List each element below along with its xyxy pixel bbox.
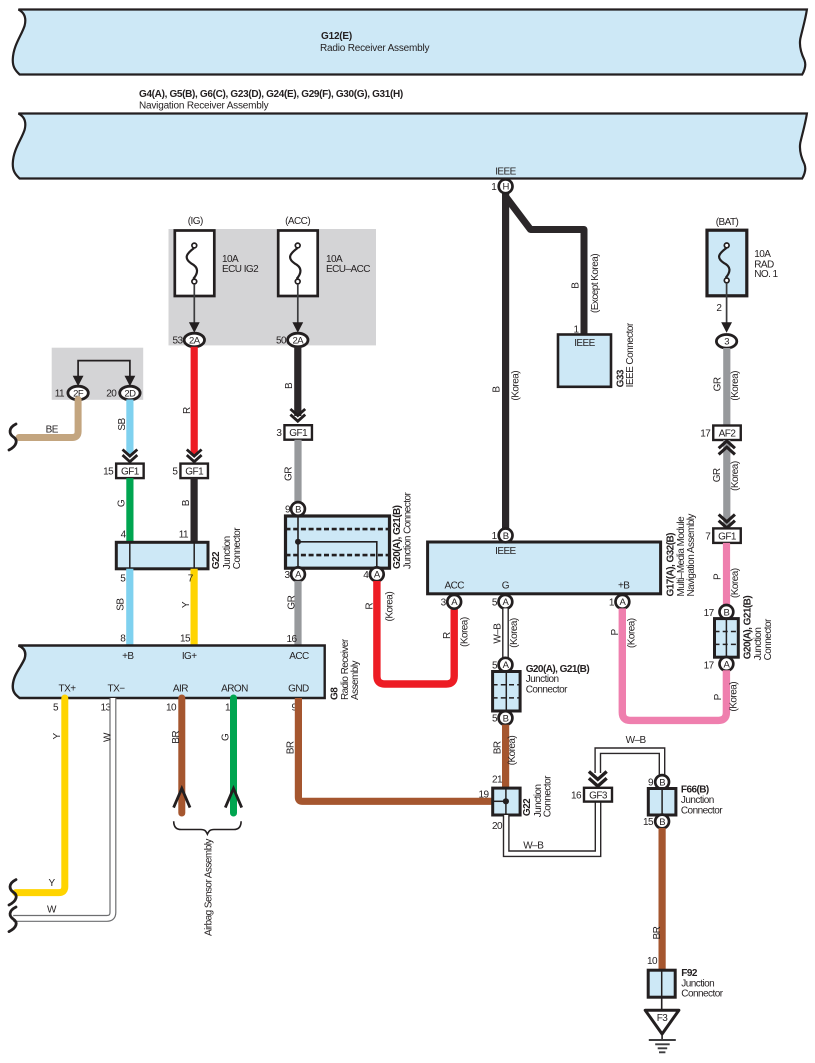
svg-text:TX−: TX− <box>108 684 126 695</box>
wire SB from 2D to GF1 <box>117 400 130 456</box>
pin 9 (B) of junction connector <box>285 502 305 516</box>
fuse 10A RAD NO. 1 (BAT) <box>707 217 779 333</box>
pin 5 (B) of junction connector <box>492 711 512 725</box>
svg-text:(Korea): (Korea) <box>730 461 741 491</box>
svg-text:BR: BR <box>286 741 297 754</box>
svg-text:W: W <box>47 904 57 915</box>
wire BR (Korea) to G22 pin 21 <box>492 725 518 789</box>
pin 1 (H) of navigation receiver <box>491 179 512 193</box>
svg-text:9: 9 <box>648 778 654 789</box>
wire W-B from F66 pin 9 to GF3 <box>598 735 662 776</box>
ground point F3 <box>645 997 679 1034</box>
svg-text:H: H <box>502 182 509 193</box>
wire P (Korea) loop from multi-media +B to 17(A) <box>610 608 740 720</box>
wire R (Korea) loop to multi-media ACC <box>364 581 470 684</box>
svg-text:5: 5 <box>53 703 59 714</box>
wire P (Korea) from GF1 to 17(B) <box>713 543 741 606</box>
svg-text:Radio Receiver: Radio Receiver <box>340 638 351 700</box>
svg-text:5: 5 <box>172 466 178 477</box>
pin 20 (2D) <box>106 386 140 400</box>
svg-text:(ACC): (ACC) <box>285 216 310 227</box>
svg-text:B: B <box>571 282 582 289</box>
svg-text:W: W <box>102 732 113 742</box>
svg-text:Y: Y <box>181 601 192 608</box>
svg-text:F3: F3 <box>657 1013 669 1024</box>
svg-text:BR: BR <box>171 731 182 744</box>
svg-text:Y: Y <box>52 733 63 740</box>
svg-text:(Korea): (Korea) <box>730 568 741 598</box>
label Navigation Receiver Assembly heading <box>139 89 403 112</box>
junction AF2 pin 17 <box>700 426 741 441</box>
svg-text:5: 5 <box>120 574 126 585</box>
svg-text:G4(A), G5(B), G6(C), G23(D), G: G4(A), G5(B), G6(C), G23(D), G24(E), G29… <box>139 89 403 100</box>
junction GF1 pin 5 <box>172 464 208 479</box>
svg-text:Navigation Receiver Assembly: Navigation Receiver Assembly <box>139 101 269 112</box>
connector arrows into GF1 (15) <box>123 450 138 462</box>
svg-text:17: 17 <box>704 661 715 672</box>
pin 9 (B) of F66 <box>648 775 669 789</box>
svg-text:16: 16 <box>286 634 297 645</box>
svg-text:P: P <box>713 693 724 700</box>
svg-text:BR: BR <box>492 741 503 754</box>
junction GF1 pin 7 <box>705 528 741 543</box>
connector arrows into GF1 (7) <box>719 515 735 528</box>
svg-text:Junction: Junction <box>681 795 714 806</box>
svg-text:B: B <box>659 777 665 788</box>
svg-text:G: G <box>117 499 128 507</box>
svg-text:W–B: W–B <box>626 735 647 746</box>
junction connector F92 <box>648 968 724 1000</box>
pin 2 (3) of battery fuse <box>716 335 736 349</box>
svg-text:4: 4 <box>121 530 127 541</box>
svg-text:(BAT): (BAT) <box>716 217 739 228</box>
svg-text:(Korea): (Korea) <box>507 736 518 766</box>
svg-text:16: 16 <box>571 790 582 801</box>
fuse 10A ECU-ACC (ACC) <box>278 216 370 333</box>
svg-text:GR: GR <box>287 595 298 609</box>
pin 5 (A) of multi-media module <box>492 595 512 609</box>
wire BR from GND to G22 pin 19 <box>286 698 493 801</box>
junction connector G20(A) G21(B) right <box>715 596 775 661</box>
wire Y from TX+ to harness break <box>16 698 65 893</box>
wire W from TX- to harness break <box>13 698 113 918</box>
svg-text:W–B: W–B <box>523 841 544 852</box>
svg-text:ARON: ARON <box>221 684 248 695</box>
svg-text:F66(B): F66(B) <box>681 785 709 796</box>
svg-text:3: 3 <box>724 337 729 348</box>
pin 4 (A) <box>363 567 383 581</box>
svg-text:(Korea): (Korea) <box>511 371 522 401</box>
break symbol on Y wire <box>9 880 16 905</box>
svg-text:BR: BR <box>652 926 663 939</box>
pin 1 (A) of multi-media module <box>609 595 629 609</box>
svg-text:IEEE: IEEE <box>495 167 516 178</box>
wire BR from AIR to airbag sensor <box>166 698 182 813</box>
svg-text:(Except Korea): (Except Korea) <box>590 254 601 313</box>
wire BR from F66 to F92 <box>647 828 663 970</box>
arrow to airbag sensor on ARON wire <box>225 788 241 807</box>
wire B from fuse ACC to GF1 <box>284 347 298 416</box>
wire W-B (Korea) from G pin <box>493 608 521 658</box>
pin 3 (A) of multi-media module <box>441 595 461 609</box>
svg-text:Connector: Connector <box>763 618 774 660</box>
svg-text:ECU–ACC: ECU–ACC <box>326 264 370 275</box>
svg-text:TX+: TX+ <box>59 684 77 695</box>
svg-text:B: B <box>295 504 301 515</box>
wire GR from GF1 to pin 9(B) <box>284 440 299 503</box>
svg-text:1: 1 <box>491 182 497 193</box>
wire Y from G22 pin 7 to radio pin 15 <box>180 569 194 646</box>
svg-text:Y: Y <box>49 878 56 889</box>
connector arrows out of AF2 <box>719 441 735 454</box>
pin 17 (B) of junction connector <box>704 605 734 619</box>
svg-text:GR: GR <box>712 377 723 391</box>
junction connector G22 lower <box>478 775 553 833</box>
svg-text:G22: G22 <box>522 798 533 816</box>
jumper wire between 2F and 2D <box>78 361 130 379</box>
svg-text:(Korea): (Korea) <box>509 618 520 648</box>
svg-text:50: 50 <box>276 335 287 346</box>
svg-text:2A: 2A <box>189 335 201 346</box>
pin 15 (B) of F66 <box>643 815 669 829</box>
svg-text:ACC: ACC <box>289 651 309 662</box>
svg-text:GF3: GF3 <box>589 790 608 801</box>
svg-text:(Korea): (Korea) <box>729 682 740 712</box>
fuse block background <box>169 229 377 345</box>
wire GR (Korea) from AF2 to GF1 <box>712 440 741 528</box>
wire SB from G22 pin 5 to radio pin 8 <box>116 569 130 646</box>
svg-text:B: B <box>492 386 503 393</box>
fuse 10A ECU IG2 (IG) <box>175 216 259 333</box>
svg-text:20: 20 <box>492 821 503 832</box>
svg-text:5: 5 <box>492 660 498 671</box>
svg-text:G20(A), G21(B): G20(A), G21(B) <box>526 664 590 675</box>
svg-text:5: 5 <box>492 597 498 608</box>
component G17(A) G32(B) Multi-Media Module Navigation Assembly <box>428 514 698 597</box>
svg-text:11: 11 <box>179 530 189 541</box>
svg-text:Navigation Assembly: Navigation Assembly <box>686 514 697 597</box>
junction connector G20(A) G21(B) <box>286 492 414 569</box>
svg-text:8: 8 <box>120 634 126 645</box>
component band Navigation Receiver Assembly <box>13 114 807 179</box>
arrow into pin 2F <box>73 376 84 387</box>
junction GF3 pin 16 <box>571 788 612 802</box>
svg-text:G12(E): G12(E) <box>321 31 352 42</box>
connector arrows into GF1 (5) <box>187 450 202 462</box>
svg-text:B: B <box>284 382 295 389</box>
svg-text:15: 15 <box>643 817 654 828</box>
svg-text:3: 3 <box>441 597 447 608</box>
svg-text:B: B <box>181 499 192 506</box>
pin 1 (B) of multi-media module <box>492 529 513 543</box>
svg-text:G17(A), G32(B): G17(A), G32(B) <box>665 533 676 597</box>
svg-text:IEEE: IEEE <box>495 546 516 557</box>
svg-text:3: 3 <box>276 428 282 439</box>
svg-text:20: 20 <box>106 389 117 400</box>
svg-text:R: R <box>364 603 375 610</box>
break symbol on W wire <box>9 907 16 932</box>
svg-text:(Korea): (Korea) <box>730 371 741 401</box>
svg-text:3: 3 <box>284 570 290 581</box>
svg-text:R: R <box>182 407 193 414</box>
svg-text:GF1: GF1 <box>718 531 737 542</box>
svg-text:IG+: IG+ <box>182 651 197 662</box>
pin 17 (A) of junction connector <box>704 657 734 672</box>
svg-text:G22: G22 <box>211 551 222 569</box>
arrow into pin 2D <box>125 376 136 387</box>
svg-text:(Korea): (Korea) <box>384 592 395 622</box>
svg-text:Multi–Media Module: Multi–Media Module <box>676 516 687 597</box>
junction connector F66(B) <box>648 785 723 817</box>
svg-text:2D: 2D <box>124 388 136 399</box>
svg-text:15: 15 <box>180 634 191 645</box>
svg-text:19: 19 <box>478 790 489 801</box>
svg-text:BE: BE <box>46 425 59 436</box>
svg-text:GF1: GF1 <box>289 428 308 439</box>
wire B from GF1 to G22 pin 11 <box>179 478 194 542</box>
svg-text:G8: G8 <box>329 687 340 700</box>
svg-text:G20(A), G21(B): G20(A), G21(B) <box>742 596 753 660</box>
wire GR from pin 3(A) to radio pin 16 <box>286 581 298 646</box>
svg-text:NO. 1: NO. 1 <box>754 269 778 280</box>
svg-text:Assembly: Assembly <box>350 661 361 700</box>
svg-text:SB: SB <box>116 598 127 611</box>
break symbol on BE wire <box>9 424 16 450</box>
svg-text:(Korea): (Korea) <box>627 618 638 648</box>
junction connector G20(A) G21(B) middle <box>493 664 590 711</box>
svg-text:2: 2 <box>716 303 722 314</box>
pin 5 (A) of junction connector <box>492 658 512 672</box>
svg-text:2A: 2A <box>293 335 305 346</box>
wire BE from 2F to harness break <box>19 400 78 438</box>
svg-text:ECU IG2: ECU IG2 <box>222 264 259 275</box>
svg-text:5: 5 <box>492 714 498 725</box>
connector arrows into GF1 (3) <box>290 409 305 421</box>
svg-text:GR: GR <box>284 467 295 481</box>
svg-text:10: 10 <box>166 703 177 714</box>
component G8 Radio Receiver Assembly <box>13 638 361 700</box>
svg-text:+B: +B <box>618 580 630 591</box>
svg-text:11: 11 <box>55 389 65 400</box>
svg-text:Radio Receiver Assembly: Radio Receiver Assembly <box>320 43 430 54</box>
svg-text:GND: GND <box>288 684 309 695</box>
connector block 2F 2D background <box>52 348 144 400</box>
svg-text:W–B: W–B <box>493 623 504 644</box>
svg-text:P: P <box>610 629 621 636</box>
svg-text:AF2: AF2 <box>719 428 737 439</box>
svg-text:B: B <box>503 713 509 724</box>
svg-text:IEEE Connector: IEEE Connector <box>625 322 636 387</box>
pin 11 (2F) <box>55 386 89 400</box>
wire B (Korea) from pin H to multi-media module <box>492 192 522 535</box>
svg-text:(IG): (IG) <box>188 216 203 227</box>
svg-text:17: 17 <box>700 428 711 439</box>
svg-text:(Korea): (Korea) <box>459 617 470 647</box>
junction connector G22 <box>116 527 243 569</box>
ground symbol <box>649 1034 676 1052</box>
wire R from fuse IG to GF1 <box>182 347 194 455</box>
svg-text:15: 15 <box>103 466 114 477</box>
svg-text:GF1: GF1 <box>121 466 140 477</box>
svg-text:Connector: Connector <box>526 685 568 696</box>
wire B (Except Korea) branch to G33 <box>506 197 602 335</box>
svg-text:4: 4 <box>363 570 369 581</box>
svg-text:SB: SB <box>117 417 128 430</box>
svg-text:Junction Connector: Junction Connector <box>402 492 413 569</box>
junction GF1 pin 3 <box>276 425 312 440</box>
svg-text:G: G <box>502 580 510 591</box>
svg-text:21: 21 <box>492 775 503 786</box>
arrow to airbag sensor on AIR wire <box>174 788 190 807</box>
svg-text:G20(A), G21(B): G20(A), G21(B) <box>392 505 403 569</box>
svg-text:G: G <box>221 733 232 741</box>
wire G from GF1 to G22 pin 4 <box>117 478 130 542</box>
component band G12(E) Radio Receiver Assembly <box>13 10 807 75</box>
svg-text:53: 53 <box>172 335 183 346</box>
connector G33 IEEE Connector <box>558 322 636 387</box>
svg-text:ACC: ACC <box>444 580 464 591</box>
svg-text:Connector: Connector <box>681 989 723 1000</box>
svg-text:B: B <box>503 531 509 542</box>
pin 53 (2A) <box>172 333 204 347</box>
svg-text:IEEE: IEEE <box>574 338 595 349</box>
wire G from ARON to airbag sensor <box>221 698 234 813</box>
pin 3 (A) <box>284 567 304 581</box>
svg-text:Connector: Connector <box>232 527 243 569</box>
svg-text:Connector: Connector <box>543 775 554 817</box>
svg-text:1: 1 <box>609 597 615 608</box>
connector arrows into GF3 <box>589 772 607 787</box>
svg-text:B: B <box>724 607 730 618</box>
svg-text:B: B <box>659 817 665 828</box>
svg-text:+B: +B <box>122 651 134 662</box>
pin 50 (2A) <box>276 333 308 347</box>
svg-text:P: P <box>713 573 724 580</box>
svg-text:R: R <box>442 632 453 639</box>
brace airbag sensor assembly <box>174 821 241 936</box>
svg-text:AIR: AIR <box>173 684 188 695</box>
svg-text:GF1: GF1 <box>185 466 204 477</box>
junction GF1 pin 15 <box>103 464 144 479</box>
svg-text:1: 1 <box>492 531 498 542</box>
svg-text:7: 7 <box>705 531 711 542</box>
svg-text:Airbag Sensor Assembly: Airbag Sensor Assembly <box>204 839 215 936</box>
svg-text:10: 10 <box>647 956 658 967</box>
svg-text:Connector: Connector <box>681 805 723 816</box>
wire GR (Korea) from fuse to AF2 <box>712 348 740 426</box>
wire W-B from G22 pin 20 to GF3 <box>506 802 598 854</box>
svg-text:GR: GR <box>712 468 723 482</box>
